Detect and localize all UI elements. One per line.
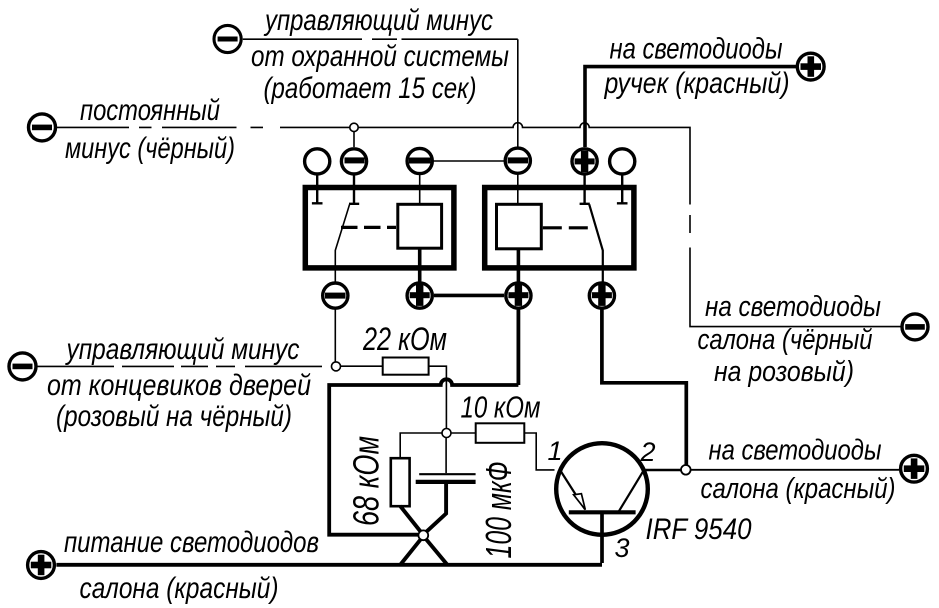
label: на светодиоды салона (чёрный на розовый) xyxy=(698,291,882,388)
wire cap branch from N2 down xyxy=(445,438,447,474)
svg-text:100 мкФ: 100 мкФ xyxy=(478,462,519,559)
relay K1 switch pivot stub from P2 xyxy=(349,175,359,204)
wire C thick from T3 down to relay2 switch pin P5 xyxy=(585,67,797,147)
svg-text:салона (красный): салона (красный) xyxy=(80,572,279,605)
svg-text:управляющий минус: управляющий минус xyxy=(263,4,493,37)
relay K1 switch arm diagonal xyxy=(335,204,349,282)
wire B constant-minus bus y=127 with gaps and hops xyxy=(57,123,901,327)
node N4 at transistor pin2 xyxy=(681,465,691,475)
svg-text:от концевиков дверей: от концевиков дверей xyxy=(47,369,311,402)
svg-text:(розовый на чёрный): (розовый на чёрный) xyxy=(56,400,292,433)
wire F thick: relay2 P9 down, left with hop, down, right to X node xyxy=(329,310,518,535)
svg-text:питание светодиодов: питание светодиодов xyxy=(64,526,319,559)
relay K1 pin circles top: plain, minus, minus xyxy=(305,148,433,174)
svg-text:управляющий минус: управляющий минус xyxy=(65,333,300,366)
label: на светодиоды салона (красный) right xyxy=(701,435,896,506)
relay K1 coil top lead xyxy=(419,175,421,205)
wire 68k branch from N2 xyxy=(400,433,442,458)
relay K1 dashed actuator link xyxy=(341,226,396,229)
svg-text:на розовый): на розовый) xyxy=(714,356,854,388)
wire G thick: relay2 P10 down, right, down to node N4 xyxy=(602,310,686,465)
relay K1 box xyxy=(305,188,454,268)
node on bus above relay1 xyxy=(350,123,358,131)
svg-text:салона (чёрный: салона (чёрный xyxy=(698,324,873,356)
label: управляющий минус от концевиков дверей (розовый на чёрный) xyxy=(47,333,311,433)
wire N2 to R2 xyxy=(451,432,476,434)
terminal T2 minus (constant minus black) xyxy=(29,114,56,141)
svg-text:на светодиоды: на светодиоды xyxy=(705,291,881,323)
svg-text:на светодиоды: на светодиоды xyxy=(709,435,882,467)
resistor R2 10k xyxy=(476,423,525,443)
terminal T4 minus (salon LEDs black-on-pink) xyxy=(902,314,928,340)
X legs down to bottom wire xyxy=(400,539,447,565)
relay K2 switch arm diagonal xyxy=(589,204,603,282)
relay K2 coil top lead xyxy=(517,174,519,204)
resistor R1 22k xyxy=(383,358,429,375)
wire node to relay1 pin P2 xyxy=(353,132,355,147)
wire from T1 to relay2 coil pin (underline of top label) xyxy=(243,39,518,146)
node N2 xyxy=(442,429,451,438)
label: управляющий минус от охранной системы (работает 15 сек) xyxy=(251,4,509,105)
relay K2 bottom pins: plus, plus xyxy=(506,283,615,308)
transistor drain diagonal xyxy=(618,470,644,512)
relay K2 box xyxy=(485,188,634,268)
terminal T5 plus (salon LEDs red) xyxy=(901,455,928,482)
resistor R3 68k vertical xyxy=(391,458,410,506)
label: питание светодиодов салона (красный) xyxy=(64,526,319,605)
X node N3 xyxy=(418,530,428,540)
terminal T7 plus (salon LED power red) xyxy=(28,552,55,579)
transistor source diagonal with arrow xyxy=(560,470,585,509)
relay K2 coil bottom lead thick xyxy=(517,249,521,283)
transistor base bar xyxy=(569,510,636,514)
wire D door-switch bus y=366 dashed segments xyxy=(37,365,322,367)
svg-text:ручек (красный): ручек (красный) xyxy=(604,67,790,100)
relay K2 dashed actuator link xyxy=(543,226,589,229)
transistor pin3 lead down xyxy=(600,513,604,563)
capacitor C1 stem down and diagonal to X node xyxy=(426,484,446,532)
relay K1 coil square xyxy=(398,204,442,248)
svg-text:1: 1 xyxy=(547,436,562,466)
transistor VT1 IRF9540 circle xyxy=(556,443,648,535)
label: постоянный минус (чёрный) xyxy=(65,94,235,165)
svg-text:2: 2 xyxy=(639,437,655,467)
svg-text:IRF 9540: IRF 9540 xyxy=(646,513,752,546)
relay K1 fixed contact stub from plain pin xyxy=(312,175,323,203)
wire link P3-P4 top xyxy=(434,160,505,162)
terminal T6 minus (control minus from door switches) xyxy=(9,353,36,380)
svg-text:от охранной системы: от охранной системы xyxy=(251,40,509,73)
wire R1 right, down through hop to node N2 xyxy=(429,366,447,428)
relay K1 bottom pins: minus, plus xyxy=(323,283,433,308)
relay K2 pin circles top: minus, plus, plain xyxy=(505,148,635,174)
wire transistor pin2 to N4 xyxy=(646,469,682,471)
svg-text:10 кОм: 10 кОм xyxy=(461,389,541,424)
svg-text:постоянный: постоянный xyxy=(80,94,220,127)
svg-text:3: 3 xyxy=(614,533,629,563)
wire J bottom thick xyxy=(56,563,602,567)
node N1 xyxy=(332,362,341,371)
wire R3 bottom diagonal thick to X node xyxy=(400,506,421,532)
capacitor C1 top plate thin xyxy=(419,473,475,475)
svg-text:68 кОм: 68 кОм xyxy=(346,436,387,526)
svg-text:минус (чёрный): минус (чёрный) xyxy=(65,132,235,165)
svg-text:(работает 15 сек): (работает 15 сек) xyxy=(264,72,477,105)
relay K2 fixed contact stub from plain pin xyxy=(617,175,628,203)
label: на светодиоды ручек (красный) xyxy=(604,33,790,101)
wire N1 to R1 xyxy=(341,365,383,367)
wire from relay1 P7 down to node N1 xyxy=(334,310,336,363)
wire link P8-P9 bottom thick xyxy=(434,294,504,298)
wire N4 to T5 xyxy=(691,469,900,471)
wire R2 right to transistor gate pin1 xyxy=(524,433,554,470)
terminal T3 plus (to handle LEDs red) xyxy=(797,53,824,80)
capacitor C1 bottom plate thick xyxy=(416,480,476,484)
svg-text:салона (красный): салона (красный) xyxy=(701,473,896,505)
svg-text:22 кОм: 22 кОм xyxy=(362,321,447,357)
terminal T1 minus (control minus from alarm) xyxy=(214,25,241,52)
relay K2 coil square xyxy=(497,204,542,249)
relay K1 coil bottom lead thick xyxy=(418,248,422,283)
relay K2 switch pivot stub from P5 xyxy=(580,175,590,204)
svg-text:на светодиоды: на светодиоды xyxy=(610,33,783,66)
